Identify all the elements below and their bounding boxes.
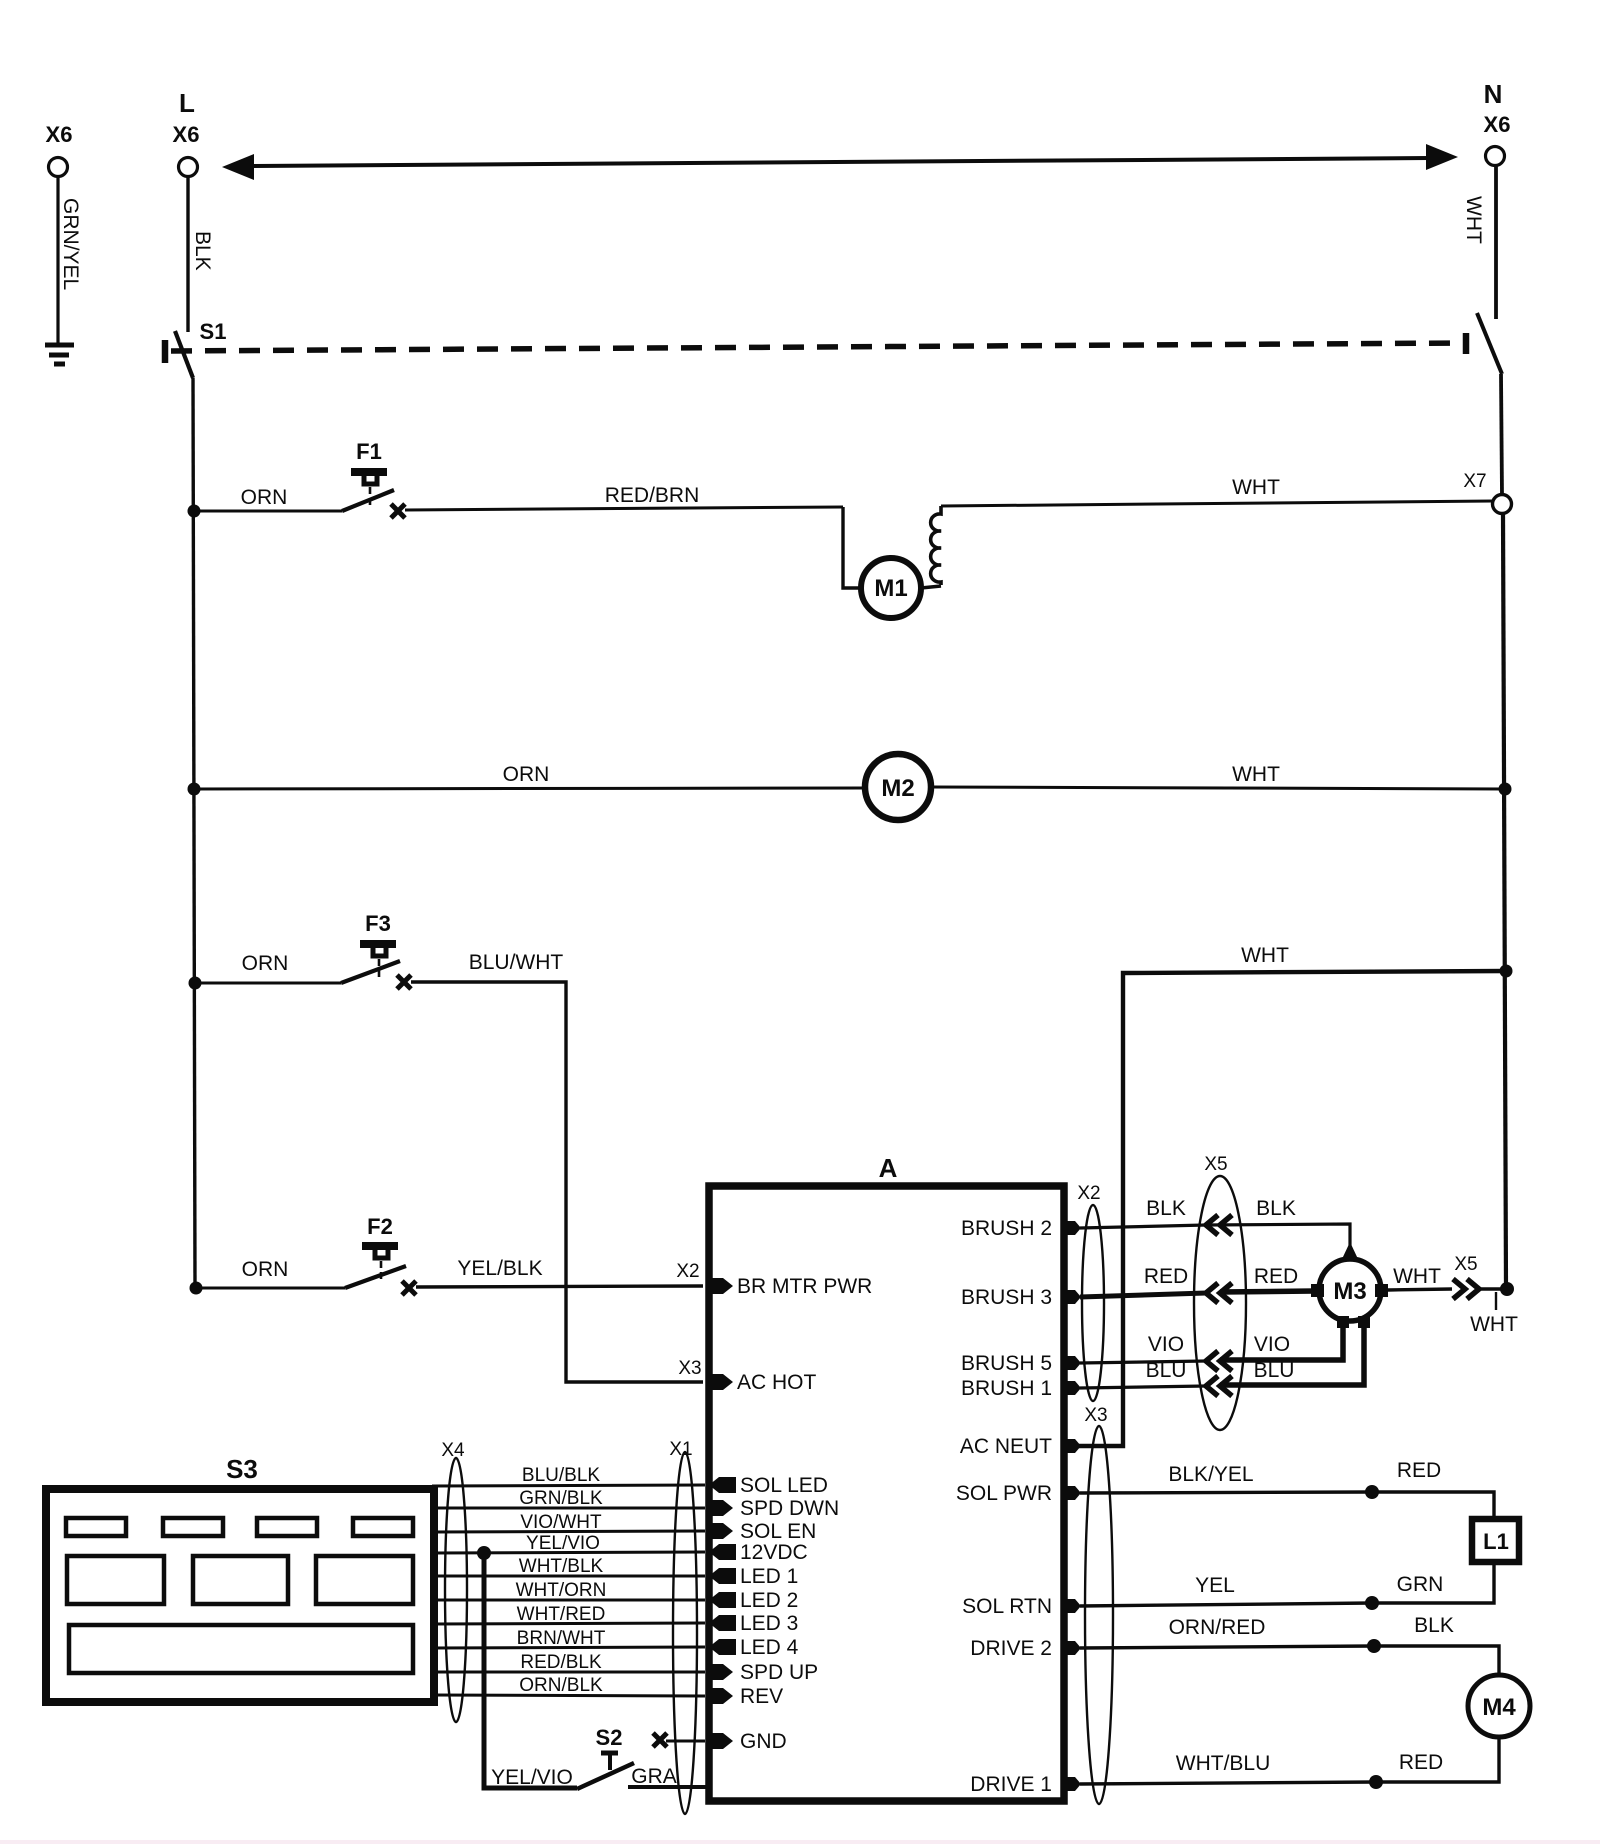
- svg-text:WHT: WHT: [1232, 763, 1280, 786]
- pin 12VDC (out arrow): [709, 1544, 736, 1560]
- svg-text:BLU: BLU: [1146, 1359, 1187, 1382]
- motor M4: [1468, 1675, 1530, 1737]
- pin SOL LED (out arrow): [709, 1477, 736, 1493]
- svg-text:WHT/RED: WHT/RED: [517, 1604, 606, 1625]
- wire YEL/VIO: [432, 1552, 705, 1553]
- wire BLU/WHT: [411, 982, 703, 1382]
- pin BRUSH 1 (tab): [1062, 1381, 1081, 1395]
- motor M2: [865, 754, 931, 820]
- wire down to M1: [843, 507, 861, 588]
- wire BLK (BRUSH 2): [1080, 1224, 1350, 1250]
- svg-text:BRUSH 5: BRUSH 5: [961, 1352, 1052, 1375]
- svg-text:BLU/BLK: BLU/BLK: [522, 1465, 600, 1486]
- svg-text:BLU: BLU: [1254, 1359, 1295, 1382]
- pin LED 1 (out arrow): [709, 1568, 736, 1584]
- switch S1 left tick: [162, 340, 169, 363]
- wire right bus upper (N feed): [1501, 374, 1502, 495]
- svg-text:ORN/RED: ORN/RED: [1169, 1616, 1266, 1639]
- junction dot F2 row left: [190, 1282, 203, 1295]
- svg-text:F2: F2: [367, 1214, 393, 1239]
- pin BRUSH 5 (tab): [1062, 1356, 1081, 1370]
- arrow into M3 top: [1342, 1242, 1358, 1259]
- chevrons X5 VIO row: [1206, 1351, 1232, 1371]
- wire RED (BRUSH 3): [1080, 1293, 1206, 1297]
- junction dot DRIVE 2 row: [1367, 1639, 1381, 1653]
- chevrons X5 (M3 out, pointing right): [1453, 1279, 1479, 1299]
- svg-text:BRUSH 2: BRUSH 2: [961, 1217, 1052, 1240]
- svg-text:BLU/WHT: BLU/WHT: [469, 951, 564, 974]
- svg-text:LED 4: LED 4: [740, 1636, 799, 1659]
- pin DRIVE 1 (tab): [1062, 1777, 1081, 1791]
- svg-text:X2: X2: [676, 1261, 699, 1282]
- svg-text:RED: RED: [1254, 1265, 1298, 1288]
- M3 right pad: [1375, 1284, 1388, 1297]
- pin DRIVE 2 (tab): [1062, 1641, 1081, 1655]
- wire ORN (F2 row): [196, 1287, 345, 1290]
- junction dot F3 row left: [189, 977, 202, 990]
- S3 button row 1: [66, 1518, 413, 1536]
- connector X3 ellipse: [1085, 1426, 1113, 1804]
- wire ORN (F3 row): [195, 982, 341, 985]
- svg-text:N: N: [1484, 79, 1503, 109]
- svg-text:GRN/BLK: GRN/BLK: [519, 1488, 603, 1509]
- svg-text:X6: X6: [1484, 112, 1511, 137]
- wire WHT (M2 row): [931, 787, 1505, 789]
- svg-text:X4: X4: [441, 1440, 465, 1461]
- breaker F3 thermal symbol: [360, 942, 396, 978]
- svg-text:GND: GND: [740, 1730, 787, 1753]
- svg-text:BR MTR PWR: BR MTR PWR: [737, 1275, 872, 1298]
- svg-text:VIO: VIO: [1254, 1333, 1290, 1356]
- pin SOL RTN (tab): [1062, 1599, 1081, 1613]
- S3 display window: [69, 1625, 413, 1673]
- wire WHT (N to S1): [1494, 166, 1498, 319]
- svg-text:GRN/YEL: GRN/YEL: [59, 198, 82, 290]
- switch S2 pushbutton actuator: [601, 1751, 618, 1756]
- wire GRN/BLK: [432, 1507, 705, 1510]
- splice X (F3 out): [397, 975, 411, 989]
- junction dot M2 row left: [188, 783, 201, 796]
- scan artifact bottom band: [0, 1840, 1600, 1844]
- svg-text:WHT: WHT: [1470, 1313, 1518, 1336]
- pin LED 3 (out arrow): [709, 1615, 736, 1631]
- switch S1 left pole blade: [175, 331, 193, 378]
- junction dot WHT riser / right bus: [1500, 965, 1513, 978]
- pin LED 4 (out arrow): [709, 1639, 736, 1655]
- keypad S3 box: [46, 1489, 434, 1702]
- svg-text:RED: RED: [1399, 1751, 1443, 1774]
- wire BLU/BLK: [432, 1485, 705, 1486]
- svg-text:SOL EN: SOL EN: [740, 1520, 816, 1543]
- svg-text:LED 3: LED 3: [740, 1612, 798, 1635]
- svg-text:RED/BLK: RED/BLK: [520, 1652, 602, 1673]
- svg-text:S1: S1: [200, 319, 227, 344]
- wire WHT/RED: [432, 1623, 705, 1624]
- wire RED/BLK: [432, 1671, 705, 1674]
- svg-text:X6: X6: [173, 122, 200, 147]
- svg-text:BRN/WHT: BRN/WHT: [517, 1628, 606, 1649]
- switch S1 mechanical link (dashed): [171, 343, 1461, 351]
- solenoid L1: [1472, 1519, 1519, 1562]
- pin LED 2 (out arrow): [709, 1592, 736, 1608]
- svg-text:M4: M4: [1482, 1694, 1516, 1721]
- svg-text:A: A: [879, 1153, 898, 1183]
- svg-text:BLK: BLK: [1256, 1197, 1296, 1220]
- svg-text:12VDC: 12VDC: [740, 1541, 808, 1564]
- double arrow L to N: [250, 158, 1430, 166]
- svg-text:F3: F3: [365, 911, 391, 936]
- svg-text:WHT/ORN: WHT/ORN: [516, 1580, 607, 1601]
- svg-text:AC HOT: AC HOT: [737, 1371, 817, 1394]
- pin AC NEUT (tab): [1062, 1439, 1081, 1453]
- switch S2 blade: [577, 1763, 634, 1789]
- svg-text:WHT: WHT: [1232, 476, 1280, 499]
- chevrons X5 BLK row: [1206, 1215, 1232, 1235]
- svg-text:AC NEUT: AC NEUT: [960, 1435, 1052, 1458]
- wire right bus lower: [1503, 514, 1506, 1289]
- svg-text:L1: L1: [1483, 1529, 1509, 1554]
- pin REV (in arrow): [706, 1688, 733, 1704]
- motor M1: [861, 558, 921, 618]
- breaker F2 blade: [345, 1266, 406, 1288]
- connector X1 ellipse: [673, 1452, 697, 1814]
- svg-text:ORN: ORN: [241, 486, 288, 509]
- pin SPD DWN (in arrow): [706, 1500, 733, 1516]
- svg-text:DRIVE 2: DRIVE 2: [970, 1637, 1052, 1660]
- wire WHT/ORN: [432, 1599, 705, 1602]
- svg-text:L: L: [179, 88, 195, 118]
- wire ORN/RED - BLK (DRIVE 2 to M4): [1080, 1646, 1499, 1675]
- svg-text:RED/BRN: RED/BRN: [605, 484, 700, 507]
- M3 bottom pads: [1337, 1316, 1349, 1328]
- svg-text:SOL RTN: SOL RTN: [962, 1595, 1052, 1618]
- junction dot F1 row left: [188, 505, 201, 518]
- svg-text:VIO/WHT: VIO/WHT: [520, 1512, 602, 1533]
- wire BRN/WHT: [432, 1647, 705, 1648]
- switch S1 right pole blade: [1477, 313, 1502, 374]
- junction dot YEL/VIO: [477, 1546, 491, 1560]
- svg-text:YEL/BLK: YEL/BLK: [457, 1257, 542, 1280]
- svg-text:ORN/BLK: ORN/BLK: [519, 1675, 603, 1696]
- wire to right bus: [1481, 1287, 1503, 1290]
- splice X (S2 to GND): [653, 1733, 667, 1747]
- svg-text:X5: X5: [1204, 1154, 1227, 1175]
- svg-text:SPD UP: SPD UP: [740, 1661, 818, 1684]
- switch S1 right tick: [1463, 333, 1470, 354]
- svg-text:F1: F1: [356, 439, 382, 464]
- svg-text:S3: S3: [226, 1454, 258, 1484]
- pin BR MTR PWR (in arrow): [706, 1278, 733, 1294]
- svg-text:LED 2: LED 2: [740, 1589, 798, 1612]
- wire YEL/BLK: [416, 1286, 703, 1287]
- chevrons X5 RED row: [1206, 1283, 1232, 1303]
- svg-text:RED: RED: [1397, 1459, 1441, 1482]
- wire WHT (AC NEUT riser): [1066, 971, 1505, 1446]
- svg-text:X1: X1: [669, 1439, 692, 1460]
- breaker F2 thermal symbol: [362, 1244, 398, 1280]
- motor M3: [1319, 1259, 1381, 1321]
- splice X (F1 out): [391, 504, 405, 518]
- svg-text:M1: M1: [874, 575, 907, 602]
- wire WHT/BLK: [432, 1575, 705, 1578]
- wire RED/BRN: [405, 507, 843, 510]
- svg-text:ORN: ORN: [503, 763, 550, 786]
- terminal X6 ground circle: [49, 158, 68, 177]
- splice X (F2 out): [402, 1281, 416, 1295]
- svg-text:SPD DWN: SPD DWN: [740, 1497, 839, 1520]
- wire GRN/YEL: [56, 177, 59, 343]
- wire YEL/VIO drop to S2: [484, 1553, 577, 1788]
- svg-text:X6: X6: [46, 122, 73, 147]
- junction dot DRIVE 1 row: [1369, 1775, 1383, 1789]
- wire YEL - GRN (SOL RTN to L1): [1080, 1562, 1494, 1606]
- wire ORN/BLK: [432, 1695, 705, 1696]
- wire BLK (L to S1): [186, 177, 189, 332]
- ground: [45, 345, 74, 364]
- connector X2 ellipse: [1082, 1205, 1104, 1401]
- svg-text:BRUSH 1: BRUSH 1: [961, 1377, 1052, 1400]
- svg-text:BLK: BLK: [1414, 1614, 1454, 1637]
- terminal X6 L circle: [179, 158, 198, 177]
- junction dot SOL RTN row: [1365, 1596, 1379, 1610]
- svg-text:ORN: ORN: [242, 1258, 289, 1281]
- connector X4 ellipse: [445, 1458, 467, 1722]
- svg-text:M2: M2: [881, 775, 914, 802]
- svg-text:WHT/BLK: WHT/BLK: [519, 1556, 604, 1577]
- svg-text:SOL PWR: SOL PWR: [956, 1482, 1052, 1505]
- control module A box: [709, 1186, 1064, 1801]
- pin SOL PWR (tab): [1062, 1486, 1081, 1500]
- wire BLK/YEL - RED (SOL PWR to L1): [1080, 1492, 1494, 1519]
- chevrons X5 BLU row: [1206, 1376, 1232, 1396]
- wire WHT (M3 out): [1388, 1289, 1452, 1290]
- svg-text:BLK/YEL: BLK/YEL: [1168, 1463, 1253, 1486]
- pin GND (in arrow): [706, 1733, 733, 1749]
- breaker F1 thermal symbol: [351, 470, 387, 506]
- M3 left pad: [1311, 1284, 1324, 1297]
- svg-text:GRN: GRN: [1397, 1573, 1444, 1596]
- wire label stub WHT: [1495, 1292, 1497, 1310]
- junction dot SOL PWR row: [1365, 1485, 1379, 1499]
- wire WHT (coil to X7): [941, 501, 1493, 506]
- svg-text:X7: X7: [1463, 471, 1486, 492]
- svg-text:WHT: WHT: [1462, 196, 1485, 244]
- svg-text:BLK: BLK: [191, 231, 214, 271]
- svg-text:RED: RED: [1144, 1265, 1188, 1288]
- wire VIO/WHT: [432, 1531, 705, 1532]
- svg-text:SOL LED: SOL LED: [740, 1474, 828, 1497]
- svg-text:X5: X5: [1454, 1254, 1477, 1275]
- svg-text:YEL/VIO: YEL/VIO: [491, 1766, 573, 1789]
- svg-text:YEL: YEL: [1195, 1574, 1235, 1597]
- junction dot M2 row right: [1499, 783, 1512, 796]
- coil (M1 start winding): [931, 506, 941, 585]
- svg-text:X3: X3: [1084, 1405, 1107, 1426]
- svg-text:BLK: BLK: [1146, 1197, 1186, 1220]
- wire M1 to coil: [921, 586, 941, 588]
- S3 button row 2: [67, 1556, 413, 1604]
- wire VIO (BRUSH 5): [1080, 1361, 1206, 1363]
- svg-text:WHT: WHT: [1393, 1265, 1441, 1288]
- pin SOL EN (in arrow): [706, 1523, 733, 1539]
- svg-text:WHT: WHT: [1241, 944, 1289, 967]
- svg-text:M3: M3: [1333, 1278, 1366, 1305]
- wire to GND pin: [666, 1740, 705, 1743]
- svg-text:ORN: ORN: [242, 952, 289, 975]
- breaker F3 blade: [341, 961, 400, 983]
- svg-text:LED 1: LED 1: [740, 1565, 798, 1588]
- svg-text:DRIVE 1: DRIVE 1: [970, 1773, 1052, 1796]
- svg-text:YEL/VIO: YEL/VIO: [526, 1533, 600, 1554]
- svg-text:WHT/BLU: WHT/BLU: [1176, 1752, 1271, 1775]
- wire WHT/BLU - RED (DRIVE 1 to M4): [1080, 1737, 1499, 1784]
- wire GRA: [628, 1785, 712, 1789]
- breaker F1 blade: [342, 490, 394, 511]
- svg-text:REV: REV: [740, 1685, 783, 1708]
- pin SPD UP (in arrow): [706, 1664, 733, 1680]
- junction dot M3 WHT / right bus: [1500, 1282, 1514, 1296]
- svg-text:S2: S2: [596, 1725, 623, 1750]
- svg-text:BRUSH 3: BRUSH 3: [961, 1286, 1052, 1309]
- connector X5 ellipse: [1194, 1176, 1246, 1430]
- svg-text:GRA: GRA: [631, 1765, 677, 1788]
- wire left bus (L feed): [193, 378, 195, 1288]
- wire BLU (BRUSH 1): [1080, 1386, 1206, 1388]
- wire ORN (F1 row): [194, 510, 342, 513]
- pin BRUSH 3 (tab): [1062, 1290, 1081, 1304]
- pin BRUSH 2 (tab): [1062, 1221, 1081, 1235]
- svg-text:X2: X2: [1077, 1183, 1100, 1204]
- terminal X7 circle: [1493, 495, 1512, 514]
- svg-text:VIO: VIO: [1148, 1333, 1184, 1356]
- terminal X6 N circle: [1486, 147, 1505, 166]
- svg-text:X3: X3: [678, 1358, 701, 1379]
- wire ORN (M2 row): [194, 788, 865, 789]
- pin AC HOT (in arrow): [706, 1374, 733, 1390]
